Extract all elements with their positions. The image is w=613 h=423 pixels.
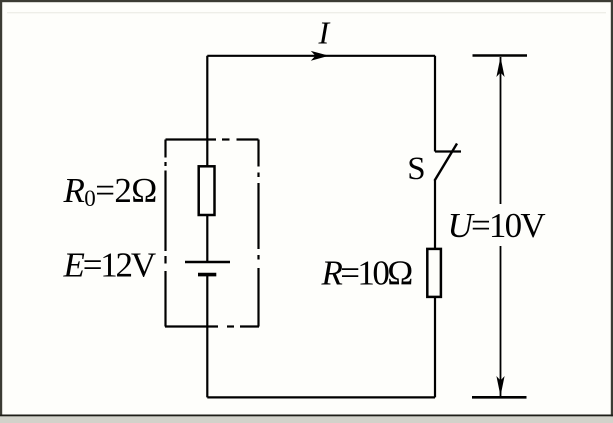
- wire: bottom horizontal: [207, 396, 435, 398]
- svg-text:E=12V: E=12V: [63, 246, 156, 285]
- dashed battery box: bottom edge: [165, 325, 259, 327]
- dimension arrowhead up: [496, 57, 504, 77]
- dimension arrowhead down: [496, 376, 504, 396]
- wire: switch to resistor R: [434, 181, 436, 250]
- switch fixed contact tick: [435, 150, 461, 152]
- dashed battery box: top edge: [166, 138, 259, 140]
- svg-text:S: S: [407, 151, 425, 187]
- dimension top bar: [473, 54, 528, 57]
- label U=10V: [446, 204, 546, 246]
- switch blade: [435, 144, 458, 181]
- dashed battery box: right edge: [257, 140, 259, 327]
- resistor R0: [199, 166, 215, 215]
- wire: R0 to battery: [206, 215, 208, 262]
- dimension bottom bar: [472, 396, 527, 399]
- svg-text:I: I: [318, 14, 331, 50]
- current arrow on top wire: [311, 51, 329, 61]
- wire: right vertical upper (top wire to switch): [434, 56, 436, 152]
- battery short plate (-): [198, 273, 216, 277]
- wire: top horizontal: [207, 55, 435, 57]
- dashed battery box: left edge: [164, 140, 166, 327]
- dimension vertical line: [500, 57, 502, 396]
- wire: resistor R to bottom wire: [434, 297, 436, 397]
- svg-text:R=10Ω: R=10Ω: [321, 254, 413, 293]
- wire: battery to bottom wire: [206, 275, 208, 398]
- wire: left vertical upper (top wire to R0): [206, 56, 208, 166]
- battery long plate (+): [185, 261, 230, 264]
- svg-text:R0=2Ω: R0=2Ω: [63, 171, 157, 211]
- svg-text:U=10V: U=10V: [448, 206, 546, 245]
- resistor R: [427, 249, 441, 297]
